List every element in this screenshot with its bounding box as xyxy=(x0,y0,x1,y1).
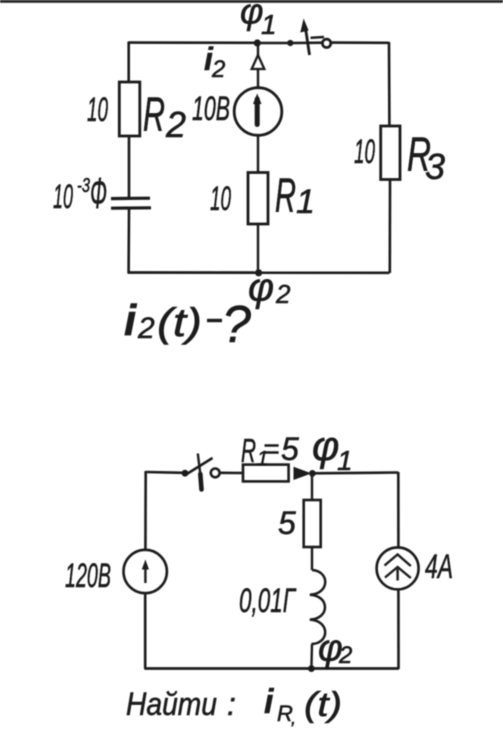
svg-text:2: 2 xyxy=(338,642,352,669)
wire bottom side bottom circuit xyxy=(145,667,399,670)
svg-text:5: 5 xyxy=(278,505,296,541)
label R1 xyxy=(275,170,315,223)
svg-text:i: i xyxy=(124,296,137,345)
resistor R3 xyxy=(381,126,400,180)
voltage source 120V circle xyxy=(124,550,167,593)
wire right side xyxy=(389,42,390,273)
svg-text:=: = xyxy=(263,433,279,464)
label 10^-3 F xyxy=(53,169,107,218)
svg-text:φ: φ xyxy=(248,266,274,310)
svg-text:i: i xyxy=(264,683,275,721)
svg-text:0,01Г: 0,01Г xyxy=(239,582,297,620)
label i2 xyxy=(204,41,225,83)
svg-text:10: 10 xyxy=(210,180,231,218)
node phi2 label xyxy=(248,266,291,310)
svg-text:2: 2 xyxy=(165,104,186,145)
svg-text:3: 3 xyxy=(425,146,445,187)
label R2 xyxy=(143,89,186,145)
svg-text:5: 5 xyxy=(281,431,299,467)
svg-text:10: 10 xyxy=(354,133,375,171)
svg-text:(t): (t) xyxy=(157,301,202,345)
wire left side xyxy=(127,42,130,274)
svg-text:4А: 4А xyxy=(425,548,453,586)
svg-text:2: 2 xyxy=(211,56,225,83)
wire top side (node phi1 rail) xyxy=(129,41,390,44)
inductor L1 0.01H xyxy=(310,570,325,644)
resistor R2 xyxy=(119,82,140,136)
svg-text:φ: φ xyxy=(312,423,339,470)
svg-text:(t): (t) xyxy=(304,686,342,724)
resistor 5 Ohm (middle branch) xyxy=(304,500,321,547)
svg-text:120В: 120В xyxy=(65,557,111,595)
node phi1 (bottom) label xyxy=(312,423,353,477)
node phi2 (bottom) label xyxy=(318,628,352,670)
task text Naiti: iR1(t) xyxy=(126,683,342,728)
wire right side bottom circuit xyxy=(397,472,400,669)
switch S1 (dot, blade arrow, contact circle) xyxy=(287,19,331,56)
resistor R1 xyxy=(248,173,268,225)
svg-text:Найти: Найти xyxy=(126,686,217,722)
wire bottom side xyxy=(128,271,390,274)
svg-text:R: R xyxy=(275,170,296,223)
svg-text:1: 1 xyxy=(296,183,315,221)
node phi2 junction dot xyxy=(255,269,262,276)
current arrow into node xyxy=(294,467,312,480)
svg-text:10В: 10В xyxy=(192,90,230,128)
svg-text::: : xyxy=(227,686,236,722)
wire middle branch xyxy=(257,43,259,273)
node phi2 (bottom) dot xyxy=(308,665,315,672)
question text i2(t)-? xyxy=(124,296,251,354)
voltage source E1 10V circle xyxy=(234,88,282,136)
svg-text:Ф: Ф xyxy=(90,169,107,218)
svg-text:2: 2 xyxy=(275,279,291,309)
current i2 direction arrow xyxy=(252,55,265,69)
label R3 xyxy=(407,129,445,187)
wire top side bottom circuit xyxy=(146,472,399,473)
node phi1 label xyxy=(240,0,277,40)
svg-text:?: ? xyxy=(222,296,251,354)
capacitor C1 xyxy=(111,198,151,208)
node phi1 (bottom) dot xyxy=(309,470,316,477)
svg-text:10: 10 xyxy=(53,178,73,216)
svg-text:10: 10 xyxy=(87,91,108,129)
wire middle branch bottom circuit xyxy=(310,474,313,669)
top scan border xyxy=(0,0,503,3)
switch S2 (dot, blade, cross stroke, contact circle) xyxy=(182,454,220,490)
wire left side bottom circuit xyxy=(144,471,147,669)
svg-text:1: 1 xyxy=(261,9,277,40)
svg-text:φ: φ xyxy=(240,0,263,32)
svg-text:R: R xyxy=(143,89,165,142)
svg-text:2: 2 xyxy=(137,312,155,345)
svg-text:R: R xyxy=(241,432,256,469)
svg-text:-3: -3 xyxy=(77,175,90,197)
svg-text:1: 1 xyxy=(337,445,353,476)
svg-text:,: , xyxy=(291,708,296,728)
current source 4A circle xyxy=(377,547,419,589)
node phi1 junction dot xyxy=(254,39,261,46)
resistor R1 (bottom circuit, horizontal) xyxy=(243,465,289,482)
label R1=5 xyxy=(241,431,299,470)
